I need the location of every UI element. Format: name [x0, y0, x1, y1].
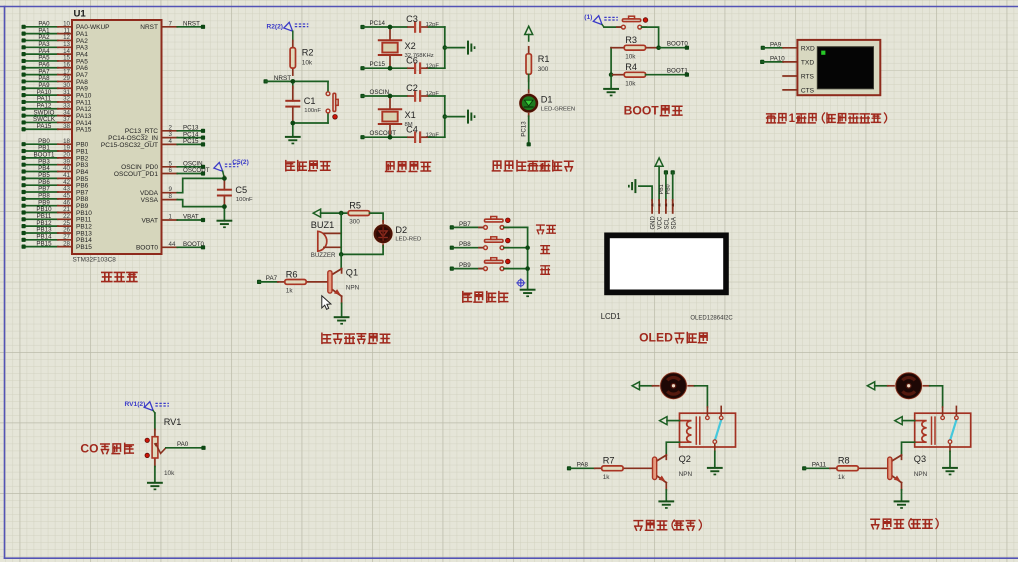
svg-text:R2: R2	[302, 48, 314, 58]
pin PB4 (40) wire	[22, 165, 89, 176]
terminal BOOT0	[667, 40, 689, 49]
svg-text:10k: 10k	[302, 60, 313, 67]
svg-text:12pF: 12pF	[426, 22, 440, 28]
ground (RV1)	[147, 482, 163, 490]
wire rail to ground	[445, 116, 465, 118]
svg-text:RV1(2): RV1(2)	[125, 401, 146, 408]
junction PC15/crystal	[388, 66, 393, 71]
pin VSSA (8)	[141, 193, 178, 204]
svg-text:300: 300	[538, 66, 549, 73]
svg-text:1: 1	[789, 113, 796, 125]
wire R1 to D1	[528, 74, 530, 90]
power arrow (OLED VCC)	[655, 158, 663, 166]
junction OSCOUT/crystal	[388, 135, 393, 140]
pin VDDA (9)	[140, 186, 177, 197]
pin PA11 (32) wire	[22, 96, 92, 107]
capacitor C2 12pF	[406, 83, 439, 102]
caption 晶振电路	[386, 162, 431, 172]
wire RV1 wiper / net PA0	[166, 441, 204, 448]
pin PA15 (38) wire	[22, 123, 92, 134]
wire coil to collector	[666, 442, 679, 454]
pin PB0 (18) wire	[22, 138, 89, 149]
junction C1 bottom node	[291, 121, 296, 126]
pin PA13 (34) wire	[22, 109, 92, 120]
pin PA9 (30) wire	[22, 82, 89, 93]
wire SCL pin / net PB1	[659, 172, 666, 200]
wire PA7 to R6	[259, 281, 278, 283]
svg-text:X2: X2	[405, 41, 416, 51]
resistor R1 300	[526, 47, 549, 82]
pin PA12 (33) wire	[22, 102, 92, 113]
resistor R2 10k	[290, 41, 313, 76]
wire motor to relay	[695, 386, 708, 407]
svg-text:OSCOUT_PD1: OSCOUT_PD1	[114, 171, 158, 178]
chip U1 STM32F103C8 body	[72, 9, 162, 264]
svg-text:NRST: NRST	[140, 24, 158, 31]
svg-text:Q1: Q1	[346, 268, 358, 278]
pin PB15 (28) wire	[22, 240, 93, 251]
svg-text:NPN: NPN	[346, 285, 360, 292]
relay	[680, 406, 736, 451]
wire R5 to D2 top	[370, 213, 384, 221]
wire key to rail	[504, 247, 528, 249]
svg-text:C4: C4	[406, 124, 418, 134]
caption 设置	[537, 225, 556, 234]
svg-text:NRST: NRST	[183, 21, 200, 28]
ground (BOOT)	[603, 88, 619, 96]
wire coil to collector	[902, 442, 915, 454]
svg-text:100nF: 100nF	[236, 197, 253, 203]
wire arrow to motor	[875, 385, 888, 387]
potentiometer RV1 10k	[145, 417, 181, 477]
net PA10 terminal	[760, 56, 785, 65]
wire right rail	[444, 27, 446, 68]
svg-text:12pF: 12pF	[426, 132, 440, 138]
svg-text:PC13: PC13	[520, 121, 527, 137]
ground (reset)	[285, 136, 301, 144]
capacitor C3 12pF	[406, 14, 439, 33]
net PC15 terminal	[360, 61, 385, 70]
pin PB10 (21) wire	[22, 206, 93, 217]
svg-text:R1: R1	[538, 54, 550, 64]
junction PC14/crystal	[388, 25, 393, 30]
pin PA0-WKUP (10) wire	[22, 21, 110, 32]
caption 继电器(净化)	[871, 519, 938, 529]
svg-text:LED-RED: LED-RED	[395, 237, 421, 243]
wire relay contact to ground	[714, 451, 716, 467]
svg-text:CO: CO	[80, 442, 98, 456]
junction dots overlay	[222, 25, 392, 209]
svg-text:12pF: 12pF	[426, 63, 440, 69]
transistor Q2 NPN	[653, 454, 693, 490]
svg-text:44: 44	[169, 241, 176, 248]
svg-text:X1: X1	[405, 110, 416, 120]
svg-text:D2: D2	[395, 225, 407, 235]
wire VCC pin	[658, 166, 660, 200]
wire Q3 emitter to ground	[901, 490, 903, 501]
svg-text:VSSA: VSSA	[141, 197, 159, 204]
svg-text:10k: 10k	[625, 53, 636, 60]
svg-text:R7: R7	[603, 456, 615, 466]
svg-text:8: 8	[169, 193, 173, 200]
net PB8 terminal	[450, 241, 472, 250]
wire arrow to R5 row	[321, 212, 348, 214]
caption 独立按键	[463, 292, 508, 302]
net NRST terminal	[264, 75, 292, 84]
junction R4 left	[609, 72, 614, 77]
crystal X2	[379, 27, 434, 68]
svg-text:BOOT1: BOOT1	[667, 67, 689, 74]
pin PA1 (11) wire	[22, 27, 89, 38]
svg-text:OSCIN: OSCIN	[370, 89, 390, 96]
svg-text:NPN: NPN	[914, 471, 928, 478]
pin PA5 (15) wire	[22, 55, 89, 66]
caption OLED显示屏	[639, 331, 707, 345]
resistor R4 10k	[611, 62, 646, 87]
push button (reset)	[326, 92, 338, 119]
wire button to BOOT0 rail	[642, 27, 659, 48]
LED D2 LED-RED	[373, 221, 421, 247]
wire PB8 to key	[452, 247, 484, 249]
mouse cursor	[322, 296, 331, 310]
svg-text:BOOT: BOOT	[624, 104, 660, 118]
pin OSCIN_PD0 (5) / net OSCIN	[121, 160, 205, 171]
wire button top drop	[327, 81, 329, 91]
wire C5 bottom to ground	[223, 207, 225, 220]
wire to ground (reset)	[292, 123, 294, 136]
svg-text:BOOT0: BOOT0	[183, 241, 205, 248]
wire SDA pin / net PB0	[666, 172, 673, 200]
pin PB5 (41) wire	[22, 172, 89, 183]
svg-text:4: 4	[169, 138, 173, 145]
net OSCOUT terminal	[360, 130, 396, 139]
pin PB13 (26) wire	[22, 227, 93, 238]
svg-text:1k: 1k	[838, 474, 846, 481]
pin OSCOUT_PD1 (6) / net OSCOUT	[114, 167, 210, 178]
terminal BOOT1	[667, 67, 689, 76]
caption 复位电路	[286, 161, 330, 171]
terminal PC13	[527, 142, 531, 146]
capacitor C1 100nF	[285, 86, 321, 122]
motor (fan)	[653, 372, 695, 400]
wire NRST row	[266, 80, 328, 82]
pin PB1 (19) wire	[22, 145, 89, 156]
caption 声光报警电路	[322, 333, 390, 343]
svg-text:RXD: RXD	[801, 45, 815, 52]
capacitor C4 12pF	[406, 124, 439, 143]
svg-text:28: 28	[63, 240, 70, 247]
ground (rotated, X1)	[467, 110, 475, 124]
wire node to C1	[292, 81, 294, 88]
ground (keys)	[520, 289, 536, 297]
junction right rail	[443, 45, 448, 50]
svg-text:PC15: PC15	[183, 138, 199, 145]
terminal SCL	[664, 170, 668, 174]
pin PA4 (14) wire	[22, 48, 89, 59]
net PA9 terminal	[761, 41, 782, 50]
svg-text:R6: R6	[286, 269, 298, 279]
origin marker (blue)	[516, 278, 525, 287]
svg-text:OSCOUT: OSCOUT	[370, 130, 397, 137]
power arrow (motor)	[632, 382, 639, 390]
ground (Q3)	[894, 500, 910, 508]
svg-text:VBAT: VBAT	[183, 214, 199, 221]
svg-text:R5: R5	[349, 201, 361, 211]
wire keys rail	[527, 227, 529, 288]
svg-text:NPN: NPN	[679, 471, 693, 478]
svg-text:C3: C3	[406, 14, 418, 24]
relay	[915, 406, 971, 451]
pin PB7 (43) wire	[22, 186, 89, 197]
svg-text:100nF: 100nF	[304, 108, 321, 114]
ground (Q1)	[334, 316, 350, 324]
svg-text:10k: 10k	[625, 80, 636, 87]
LED D1 LED-GREEN	[519, 90, 575, 116]
wire C1 bottom row to button	[293, 122, 328, 124]
ground (rotated, X2)	[467, 41, 475, 55]
svg-text:7: 7	[169, 20, 173, 27]
svg-text:R3: R3	[625, 35, 637, 45]
svg-text:LED-GREEN: LED-GREEN	[541, 106, 575, 112]
voltage probe R2(2)	[267, 22, 309, 31]
svg-text:PA0: PA0	[177, 441, 189, 448]
svg-text:GND: GND	[651, 216, 657, 230]
caption 减	[541, 266, 550, 275]
pin PC14-OSC32_IN (3) / net PC14	[108, 131, 205, 142]
net PC14 terminal	[360, 20, 385, 29]
svg-text:RTS: RTS	[801, 74, 815, 81]
voltage probe C5(2)	[214, 159, 249, 178]
ground (C5)	[217, 220, 233, 228]
wire motor to relay	[930, 386, 943, 407]
svg-text:BOOT0: BOOT0	[136, 245, 158, 252]
svg-text:PA15: PA15	[76, 127, 92, 134]
svg-text:Q3: Q3	[914, 454, 926, 464]
junction right rail	[443, 114, 448, 119]
wire PB9 to key	[452, 268, 484, 270]
svg-text:6: 6	[169, 167, 173, 174]
svg-text:D1: D1	[541, 94, 553, 104]
pin PC15-OSC32_OUT (4) / net PC15	[101, 138, 205, 149]
ground (OLED GND, rotated)	[628, 179, 636, 193]
svg-text:C5: C5	[235, 185, 247, 195]
junction C5 top node	[222, 176, 227, 181]
pin PB2 (20) wire	[22, 152, 89, 163]
crystal X1	[379, 96, 416, 137]
pin PB12 (25) wire	[22, 220, 93, 231]
wire probe to RV1	[153, 411, 155, 430]
net PB9 terminal	[450, 262, 472, 271]
svg-text:10k: 10k	[164, 470, 175, 477]
svg-text:PB15: PB15	[36, 240, 52, 247]
svg-text:12pF: 12pF	[426, 91, 440, 97]
wire probe to button	[602, 25, 621, 28]
svg-text:SDA: SDA	[671, 217, 677, 229]
svg-text:300: 300	[349, 219, 360, 226]
svg-text:SCL: SCL	[665, 217, 671, 229]
wire arrow to R1	[528, 35, 530, 42]
svg-text:RV1: RV1	[164, 417, 182, 427]
caption 主芯片	[102, 272, 137, 281]
pin PB14 (27) wire	[22, 234, 93, 245]
resistor R3 10k	[611, 35, 659, 60]
wire VDDA to C5 top	[177, 178, 224, 192]
svg-text:VCC: VCC	[658, 216, 664, 229]
virtual terminal (serial window)	[783, 40, 880, 95]
svg-text:1: 1	[169, 214, 173, 221]
svg-text:OLED: OLED	[639, 331, 673, 345]
svg-text:U1: U1	[74, 9, 87, 20]
svg-text:STM32F103C8: STM32F103C8	[73, 257, 117, 264]
wire collector node to Q1	[340, 254, 342, 268]
pin PA7 (17) wire	[22, 68, 89, 79]
pin VBAT (1) / net VBAT	[142, 214, 206, 225]
svg-text:BUZZER: BUZZER	[311, 252, 336, 259]
svg-text:OSCOUT: OSCOUT	[183, 167, 210, 174]
wire relay contact to ground	[949, 451, 951, 467]
wire probe to R2	[292, 31, 294, 41]
wire key to rail	[504, 226, 528, 228]
pin PA6 (16) wire	[22, 61, 89, 72]
net PA7 terminal	[257, 275, 278, 284]
ground (Q2)	[658, 500, 674, 508]
push button (设置)	[479, 217, 510, 230]
wire VSSA to C5 bottom	[177, 200, 224, 207]
junction R5/BUZ1	[339, 211, 344, 216]
svg-text:C6: C6	[406, 55, 418, 65]
wire PA8 to R7	[569, 467, 595, 469]
junction collector node	[339, 252, 344, 257]
wire D2 bottom to collector node	[341, 246, 383, 254]
svg-text:C2: C2	[406, 83, 418, 93]
svg-text:1k: 1k	[286, 288, 294, 295]
svg-text:Q2: Q2	[679, 454, 691, 464]
terminal SDA	[671, 170, 675, 174]
svg-text:R4: R4	[625, 62, 637, 72]
junction OSCIN/crystal	[388, 94, 393, 99]
caption 继电器(风扇)	[634, 520, 701, 530]
wire BOOT0 out	[659, 47, 687, 49]
resistor R5 300	[348, 201, 369, 226]
power arrow (motor)	[867, 382, 874, 390]
pin PA10 (31) wire	[22, 89, 92, 100]
svg-text:OLED12864I2C: OLED12864I2C	[690, 316, 733, 322]
svg-text:BOOT0: BOOT0	[667, 40, 689, 47]
power arrow (alarm)	[313, 209, 320, 217]
resistor R6 1k	[278, 269, 327, 294]
caption 串口1窗口（模拟手机端）	[767, 113, 887, 125]
push button (减)	[479, 258, 510, 271]
svg-text:38: 38	[63, 123, 70, 130]
svg-text:C1: C1	[304, 96, 316, 106]
wire GND pin	[639, 186, 652, 200]
capacitor C6 12pF	[406, 55, 439, 74]
wire key to rail	[504, 268, 528, 270]
wire arrow to coil	[902, 420, 915, 422]
svg-text:1k: 1k	[603, 474, 611, 481]
resistor R7 1k	[595, 456, 653, 481]
junction BOOT0 node	[656, 45, 661, 50]
svg-text:(1): (1)	[584, 14, 592, 21]
svg-text:R8: R8	[838, 456, 850, 466]
wire buzzer rail	[340, 213, 342, 254]
wire BOOT1 out	[646, 74, 687, 76]
wire arrow to motor	[640, 385, 653, 387]
wire D1 to PC13 terminal	[528, 116, 530, 144]
pin PB3 (39) wire	[22, 158, 89, 169]
pin PB9 (46) wire	[22, 199, 89, 210]
capacitor C5 100nF	[217, 176, 253, 207]
wire PC14 row	[363, 26, 445, 28]
wire PA10 to TXD	[762, 61, 783, 63]
net OSCIN terminal	[360, 89, 389, 98]
buzzer BUZ1	[311, 220, 342, 259]
transistor Q1 NPN	[328, 268, 360, 304]
svg-text:PC14: PC14	[370, 20, 386, 27]
wire PB7 to key	[452, 226, 484, 228]
pin NRST (7) wire / net NRST	[140, 20, 205, 31]
wire PA11 to R8	[804, 467, 830, 469]
svg-text:PA15: PA15	[37, 123, 52, 130]
pin PB8 (45) wire	[22, 193, 89, 204]
pin PB11 (22) wire	[22, 213, 92, 224]
pin PA14 (37) wire	[22, 116, 92, 127]
wire rail to ground	[445, 47, 465, 49]
pin PA3 (13) wire	[22, 41, 89, 52]
LCD1 OLED12864I2C display	[601, 200, 734, 322]
svg-text:PB1: PB1	[659, 184, 665, 194]
wire arrow to coil	[667, 420, 680, 422]
wire button bottom rise	[327, 113, 329, 123]
svg-text:CTS: CTS	[801, 87, 815, 94]
wire PA9 to RXD	[763, 47, 783, 49]
svg-text:BUZ1: BUZ1	[311, 220, 335, 230]
svg-text:PB15: PB15	[76, 244, 92, 251]
junction rail PB8	[525, 245, 530, 250]
wire PC15 row	[363, 67, 445, 69]
motor (fan)	[888, 372, 930, 400]
wire rail to ground (BOOT)	[610, 75, 612, 88]
pin PB6 (42) wire	[22, 179, 89, 190]
caption 加	[541, 246, 550, 254]
svg-text:R2(2): R2(2)	[267, 23, 284, 30]
wire RV1 to ground	[154, 467, 156, 482]
junction C5 bottom node	[222, 204, 227, 209]
wire Q1 emitter to ground	[341, 303, 343, 316]
svg-text:TXD: TXD	[801, 59, 814, 66]
caption 程序运行指示灯	[492, 161, 573, 171]
wire right rail	[444, 96, 446, 137]
power arrow (relay coil)	[660, 417, 667, 425]
caption CO值调节	[80, 442, 133, 456]
power arrow (R1 top)	[525, 26, 533, 34]
svg-text:PC15: PC15	[370, 61, 386, 68]
push button (加)	[479, 237, 510, 250]
transistor Q3 NPN	[888, 454, 928, 490]
terminal PA0	[201, 446, 205, 450]
power arrow (relay coil)	[895, 417, 902, 425]
voltage probe (1)	[584, 14, 618, 24]
wire Q2 emitter to ground	[665, 490, 667, 501]
pin PC13_RTC (2) / net PC13	[125, 124, 205, 135]
caption BOOT电路	[624, 104, 682, 118]
pin PA8 (29) wire	[22, 75, 89, 86]
wire OSCOUT row	[363, 136, 445, 138]
net PA8 terminal	[567, 462, 589, 471]
svg-text:VBAT: VBAT	[142, 217, 159, 224]
svg-text:PC15-OSC32_OUT: PC15-OSC32_OUT	[101, 142, 158, 149]
svg-text:LCD1: LCD1	[601, 312, 621, 321]
